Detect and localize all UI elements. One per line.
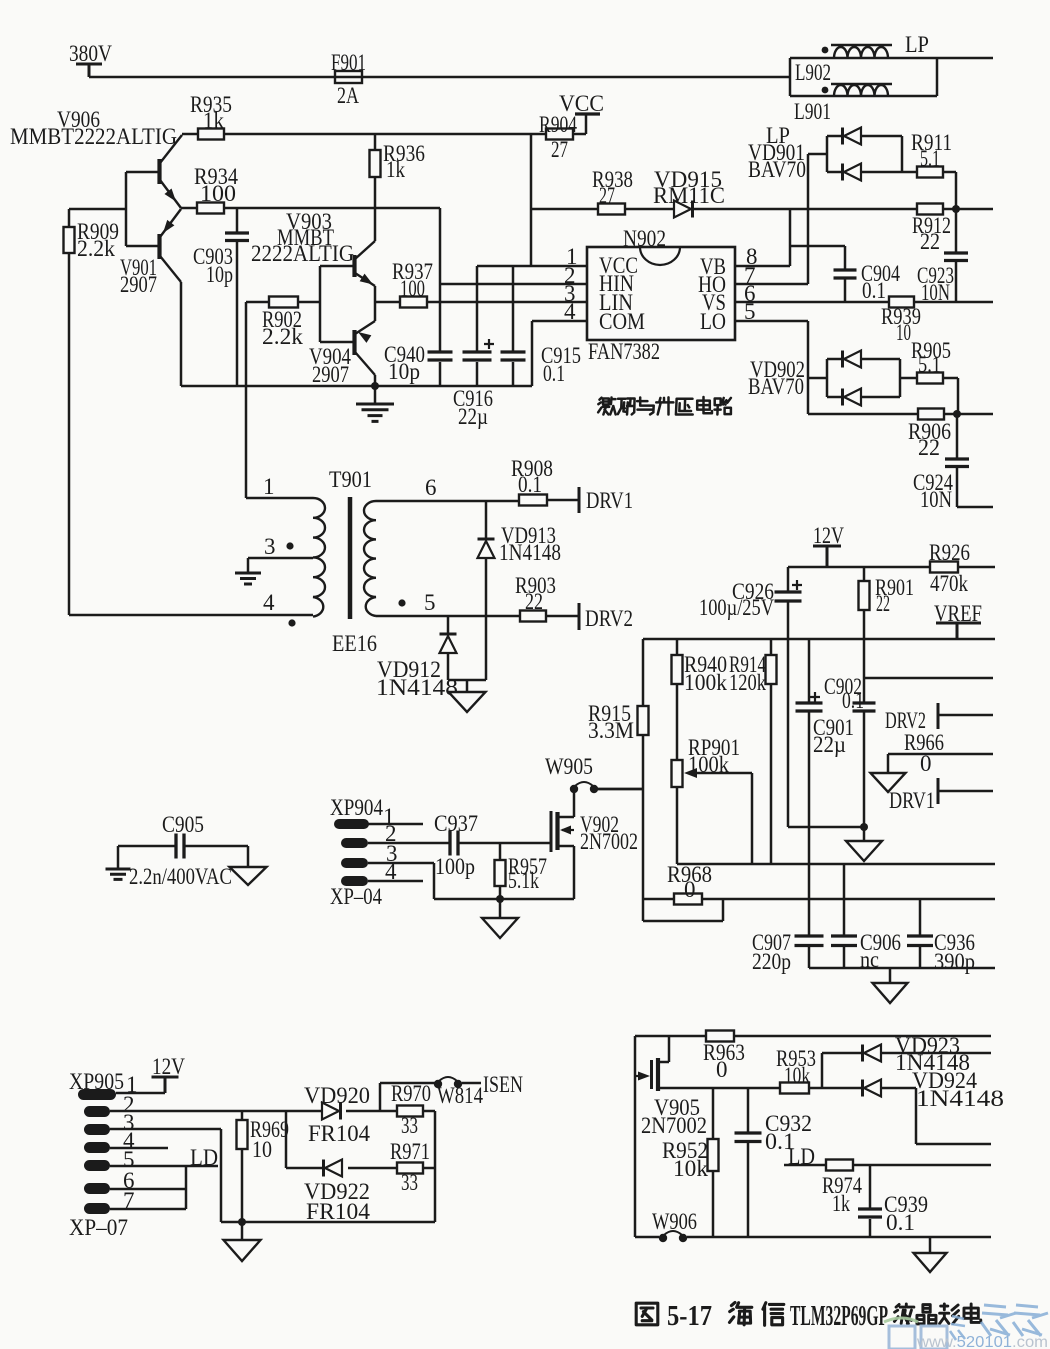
- svg-text:0.1: 0.1: [842, 688, 864, 713]
- svg-text:C905: C905: [162, 812, 204, 837]
- svg-text:27: 27: [599, 183, 615, 208]
- wire C901 leg: [808, 639, 811, 864]
- svg-text:100: 100: [400, 276, 425, 301]
- svg-text:0.1: 0.1: [518, 472, 542, 497]
- text 激励与升压电路 char 6: [715, 398, 731, 415]
- svg-text:12V: 12V: [152, 1054, 185, 1079]
- wire V902 source rail: [434, 898, 574, 901]
- svg-text:4: 4: [263, 590, 275, 615]
- diode VD902 lower: [844, 389, 861, 406]
- svg-text:N902: N902: [623, 226, 666, 251]
- wire R936 leg: [374, 134, 377, 241]
- transistor V902 gate bar: [550, 811, 553, 852]
- polarity plus C926: [792, 580, 802, 590]
- wire T901 pin3 tap: [248, 558, 313, 572]
- svg-text:2907: 2907: [120, 272, 157, 297]
- svg-text:XP–07: XP–07: [69, 1215, 128, 1240]
- resistor R914: [766, 655, 777, 684]
- wire V902 drain: [559, 793, 574, 817]
- svg-text:DRV1: DRV1: [586, 488, 633, 513]
- text 激励与升压电路 char 4: [676, 399, 693, 415]
- resistor R901: [859, 581, 870, 610]
- wire R969 leg: [241, 1111, 244, 1222]
- wire C915 leg: [512, 266, 515, 386]
- svg-text:R971: R971: [390, 1139, 430, 1164]
- ground VD912: [449, 692, 486, 712]
- wire XP904 pin4 stub: [368, 880, 423, 883]
- svg-text:L901: L901: [794, 99, 831, 124]
- svg-text:100k: 100k: [684, 670, 727, 695]
- diode VD915: [674, 201, 691, 218]
- capacitor C932: [735, 1133, 762, 1142]
- wire C907 leg: [808, 864, 811, 968]
- svg-text:22µ: 22µ: [813, 732, 846, 757]
- wire V901 collector drop: [180, 282, 183, 386]
- caption char 液晶彩电-1: [917, 1305, 936, 1324]
- pin XP904-4 pad: [341, 876, 368, 886]
- text 激励与升压电路 char 3: [656, 397, 673, 414]
- svg-text:380V: 380V: [69, 41, 112, 66]
- svg-text:6: 6: [425, 475, 437, 500]
- caption char 液晶彩电-0: [894, 1304, 913, 1323]
- wire VD922 branch: [286, 1111, 396, 1168]
- resistor R953: [780, 1083, 809, 1094]
- svg-text:MMBT2222ALTIG: MMBT2222ALTIG: [10, 124, 177, 149]
- svg-text:22: 22: [525, 589, 543, 614]
- resistor R935: [198, 129, 224, 140]
- wire C936 leg: [919, 899, 922, 968]
- svg-text:2N7002: 2N7002: [580, 829, 638, 854]
- wire R952 leg: [712, 1088, 715, 1237]
- wire C926 leg: [787, 567, 790, 639]
- svg-text:3: 3: [264, 534, 276, 559]
- svg-text:T901: T901: [329, 467, 372, 492]
- wire gnd stub: [374, 386, 377, 403]
- node 380V power entry: [76, 64, 102, 77]
- diode VD920: [322, 1103, 339, 1120]
- pin XP905-1 pad: [78, 1089, 116, 1100]
- power 12V flag XP905: [152, 1077, 179, 1093]
- svg-text:10: 10: [896, 320, 911, 345]
- wire T901 pin6 out: [376, 500, 578, 501]
- svg-text:5: 5: [424, 590, 436, 615]
- capacitor C916: [463, 352, 492, 360]
- ground T901 pin3: [235, 573, 261, 584]
- svg-text:F901: F901: [331, 50, 366, 75]
- svg-text:R970: R970: [391, 1081, 431, 1106]
- svg-text:L902: L902: [795, 60, 831, 85]
- wire C940 leg: [439, 284, 442, 386]
- capacitor C904: [834, 270, 857, 278]
- text 激励与升压电路 char 2: [637, 398, 654, 415]
- caption char 图: [636, 1303, 658, 1325]
- wire XP905 pin1: [116, 1092, 165, 1095]
- resistor R926: [930, 562, 958, 573]
- node T901 dot pin5: [398, 599, 405, 606]
- caption char 液晶彩电-3: [964, 1304, 981, 1322]
- wire C923 leads: [955, 209, 958, 302]
- capacitor C906: [831, 936, 857, 946]
- svg-text:390p: 390p: [934, 949, 975, 974]
- resistor R905: [917, 373, 943, 384]
- svg-text:220p: 220p: [752, 949, 791, 974]
- wire T901 pin4 line: [69, 614, 313, 617]
- transistor V902 channel bar: [555, 812, 559, 850]
- switch W814: [434, 1080, 442, 1088]
- resistor R934: [197, 203, 224, 214]
- caption char 信: [763, 1303, 784, 1326]
- op-amp U1 N902 FAN7382 body: [587, 247, 735, 340]
- pin XP905-5 pad: [84, 1160, 110, 1171]
- wire LD rail y1165: [784, 1164, 991, 1167]
- ground C901/C902: [846, 841, 882, 861]
- wire VD912 leg: [448, 616, 486, 680]
- resistor R974: [826, 1160, 853, 1171]
- wire LIN drive y302: [375, 301, 587, 304]
- svg-text:LO: LO: [700, 309, 726, 334]
- caption char 液晶彩电-2: [940, 1304, 959, 1323]
- svg-text:EE16: EE16: [332, 631, 377, 656]
- wire R901 leg: [863, 567, 866, 639]
- wire pin8 VB link: [735, 209, 790, 266]
- wire C924 leads: [957, 414, 993, 507]
- wire XP904 pin3 down: [368, 863, 434, 899]
- transformer T901 core: [348, 497, 353, 619]
- svg-text:22: 22: [876, 591, 890, 616]
- capacitor C907: [795, 936, 824, 946]
- wire C902 top out: [864, 677, 993, 680]
- wire gnd stub y968: [889, 968, 892, 983]
- power flag VCC: [575, 112, 600, 115]
- wire gnd rail y386: [181, 385, 532, 388]
- wire gnd stub V905: [929, 1237, 932, 1253]
- decor watermark handwriting strokes: [950, 1305, 1048, 1340]
- pin XP904-3 pad: [341, 858, 368, 868]
- resistor R938: [598, 204, 625, 215]
- switch W905: [570, 785, 578, 793]
- wire XP905 gnd rail: [221, 1221, 435, 1224]
- svg-text:1N4148: 1N4148: [916, 1086, 1004, 1111]
- capacitor C926: [775, 592, 802, 601]
- svg-text:5-17: 5-17: [667, 1301, 712, 1332]
- svg-text:LP: LP: [905, 32, 929, 57]
- ground C905 right: [230, 867, 267, 885]
- wire bottom rail y968: [809, 967, 995, 970]
- wire R966 link: [888, 754, 993, 773]
- wire VCC pin1 feed: [477, 265, 587, 268]
- pin XP904-1 pad: [334, 819, 369, 829]
- ground C905: [106, 869, 131, 879]
- inductor L902: [831, 45, 892, 58]
- node VB junction: [952, 205, 960, 213]
- wire VD923 branch: [822, 1053, 991, 1088]
- svg-text:5.1: 5.1: [920, 146, 940, 171]
- resistor R969: [237, 1120, 248, 1149]
- wire V905 drain: [659, 1036, 669, 1062]
- wire 380V rail: [89, 76, 790, 79]
- diode VD913: [478, 541, 495, 558]
- svg-text:2A: 2A: [337, 83, 359, 108]
- transistor V905 gate bar: [650, 1060, 653, 1089]
- svg-text:2.2k: 2.2k: [77, 236, 115, 261]
- wire XP904 pin2 to C937: [368, 842, 450, 845]
- node T901 dot pin3: [286, 542, 293, 549]
- transistor V905 channel bar: [656, 1058, 660, 1091]
- svg-text:0: 0: [716, 1057, 728, 1082]
- wire ISEN stub: [462, 1082, 481, 1085]
- svg-text:LD: LD: [190, 1145, 218, 1170]
- diode VD912: [440, 636, 457, 653]
- transistor V902 arrow stub: [562, 829, 574, 831]
- svg-text:2.2k: 2.2k: [262, 324, 304, 349]
- wire R902 to T901 pin1: [246, 302, 313, 498]
- wire RP901 wiper: [694, 773, 752, 864]
- svg-text:5.1: 5.1: [918, 352, 941, 377]
- wire R915 column: [598, 639, 643, 893]
- wire V902 source: [559, 846, 574, 899]
- wire V905 source rail y1088: [659, 1087, 916, 1090]
- resistor R902: [269, 297, 298, 308]
- pin V901 emitter arrow: [163, 220, 174, 233]
- svg-text:0.1: 0.1: [543, 361, 565, 386]
- svg-text:R904: R904: [539, 112, 577, 137]
- svg-text:0.1: 0.1: [862, 278, 886, 303]
- svg-text:10N: 10N: [920, 487, 952, 512]
- wire VD901 box: [827, 136, 917, 172]
- transistor V901: [157, 234, 161, 259]
- wire R905 to VS2 node: [943, 378, 958, 414]
- svg-text:3.3M: 3.3M: [588, 718, 634, 743]
- svg-text:10k: 10k: [673, 1156, 709, 1181]
- ground XP905: [224, 1240, 261, 1261]
- svg-text:100: 100: [200, 181, 236, 206]
- node R969 gnd junction: [238, 1218, 246, 1226]
- wire C904 bottom lead: [844, 278, 847, 302]
- resistor R971: [397, 1163, 423, 1174]
- transistor V906: [157, 159, 161, 184]
- power 12V flag: [813, 546, 841, 567]
- svg-text:W814: W814: [437, 1083, 483, 1108]
- svg-text:FR104: FR104: [308, 1121, 370, 1146]
- fuse F901: [335, 71, 362, 83]
- svg-text:10: 10: [252, 1137, 272, 1162]
- resistor R912: [917, 204, 943, 215]
- wire filter box L902/L901: [790, 58, 937, 96]
- resistor R939: [889, 297, 914, 308]
- wire R906 rail y414: [808, 413, 993, 416]
- wire VD924 out: [916, 1088, 991, 1144]
- svg-text:10k: 10k: [784, 1063, 810, 1088]
- polarity plus C901: [810, 692, 820, 702]
- terminal DRV1 right: [937, 778, 940, 804]
- svg-text:12V: 12V: [813, 523, 844, 548]
- ground V902 source: [482, 918, 518, 938]
- wire base node to R909: [69, 208, 126, 211]
- svg-text:5.1k: 5.1k: [508, 868, 539, 893]
- wire VCC rail y134: [182, 114, 586, 134]
- wire R940 column: [676, 639, 679, 864]
- capacitor C903: [225, 233, 249, 241]
- svg-text:2222ALTIG: 2222ALTIG: [251, 241, 354, 266]
- svg-text:120k: 120k: [729, 670, 766, 695]
- svg-text:10p: 10p: [388, 359, 420, 384]
- wire C939 leg: [869, 1165, 872, 1237]
- wire V905 left column: [634, 1036, 637, 1237]
- capacitor C923: [944, 253, 968, 261]
- svg-text:COM: COM: [599, 309, 645, 334]
- resistor R957: [495, 860, 506, 886]
- svg-text:1k: 1k: [386, 157, 405, 182]
- capacitor C902: [853, 703, 876, 711]
- wire pin7 HO: [735, 283, 808, 286]
- diode VD901 upper: [844, 128, 861, 145]
- transistor V903: [352, 255, 356, 277]
- transistor V905 gate stub: [635, 1075, 640, 1077]
- wire R970 right leg: [423, 1111, 435, 1222]
- svg-text:XP–04: XP–04: [330, 884, 382, 909]
- pin V905 arrow: [638, 1072, 650, 1081]
- node analog gnd junction: [860, 823, 868, 831]
- node R957 gnd junction: [496, 895, 504, 903]
- node L901 polarity dot: [822, 87, 829, 94]
- diode VD901 lower: [844, 164, 861, 181]
- ground bottom rail: [873, 983, 908, 1003]
- wire gnd stub XP905: [241, 1222, 244, 1240]
- text 激励与升压电路 char 1: [618, 398, 635, 414]
- wire R902 link: [246, 301, 320, 304]
- svg-text:2.2n/400VAC: 2.2n/400VAC: [129, 864, 232, 889]
- wire XP905 pin6: [110, 1188, 186, 1191]
- wire V903 base rail: [320, 266, 353, 342]
- pin XP905-3 pad: [84, 1124, 110, 1135]
- diode VD923: [864, 1045, 881, 1062]
- pin XP904-2 pad: [341, 838, 368, 848]
- wire XP905 pin2 rail: [110, 1110, 397, 1113]
- resistor R904: [546, 129, 573, 140]
- resistor R940: [672, 655, 683, 684]
- wire R909 leg: [68, 209, 71, 615]
- svg-text:1N4148: 1N4148: [376, 675, 458, 700]
- wire LP output: [937, 57, 993, 60]
- wire R963 rail y1036: [635, 1035, 991, 1038]
- wire C902 leg: [863, 639, 866, 826]
- capacitor C901: [796, 703, 823, 711]
- wire XP905 pin7: [110, 1208, 186, 1211]
- svg-text:2N7002: 2N7002: [641, 1113, 707, 1138]
- wire W905 to R915 node: [598, 788, 643, 791]
- wire DRV1 stub: [939, 790, 993, 793]
- svg-text:DRV1: DRV1: [889, 788, 935, 813]
- pin XP905-2 pad: [84, 1106, 110, 1117]
- wire R911 to VB node: [943, 172, 956, 209]
- node V904 emitter junction: [371, 382, 379, 390]
- switch W906: [659, 1234, 667, 1242]
- resistor R970: [397, 1106, 423, 1117]
- wire control rail y639: [643, 638, 995, 641]
- wire C916 leg: [476, 266, 479, 386]
- pin XP905-7 pad: [84, 1203, 110, 1214]
- wire R957 leg: [499, 843, 502, 899]
- svg-text:DRV2: DRV2: [585, 606, 633, 631]
- svg-text:RM11C: RM11C: [653, 183, 725, 208]
- capacitor C924: [945, 459, 969, 467]
- wire C905 right: [184, 846, 248, 867]
- wire XP905 pin4 stub: [110, 1147, 168, 1150]
- pin XP905-4 pad: [84, 1142, 110, 1153]
- terminal DRV1: [578, 487, 581, 513]
- power flag VREF: [936, 623, 981, 639]
- wire gnd tie y827: [788, 826, 864, 829]
- inductor L901: [831, 84, 892, 96]
- wire HIN drive corner: [440, 208, 587, 284]
- resistor R952: [708, 1139, 719, 1171]
- caption char 海: [729, 1302, 751, 1324]
- wire V905 gnd rail: [635, 1236, 991, 1239]
- wire W814 branch: [380, 1083, 436, 1111]
- ground main rail: [356, 404, 394, 421]
- svg-text:BAV70: BAV70: [748, 374, 804, 399]
- wire C932 leg: [747, 1088, 750, 1237]
- terminal DRV2 right: [937, 703, 940, 729]
- wire pin4 COM: [532, 320, 587, 323]
- wire R938 VD915 rail y209: [531, 208, 956, 211]
- wire C905 left: [118, 846, 176, 868]
- svg-text:ISEN: ISEN: [483, 1072, 523, 1097]
- svg-text:1N4148: 1N4148: [499, 540, 561, 565]
- svg-text:0.1: 0.1: [886, 1210, 915, 1235]
- wire C903 leg: [236, 208, 239, 386]
- svg-text:1k: 1k: [832, 1191, 850, 1216]
- wire pin5 LO link: [735, 321, 827, 414]
- wire VD902 box: [827, 359, 917, 397]
- wire VCC drop to R938: [530, 134, 533, 266]
- wire COM return: [531, 321, 534, 386]
- svg-text:22µ: 22µ: [458, 404, 488, 429]
- wire emitter node y208: [181, 207, 440, 210]
- wire C926 lower leg: [787, 639, 790, 827]
- wire pin6 VS rail: [735, 301, 993, 304]
- svg-text:2907: 2907: [312, 362, 349, 387]
- svg-text:27: 27: [551, 137, 568, 162]
- resistor R915: [638, 706, 649, 735]
- ground V905 rail: [914, 1253, 947, 1272]
- pin V904 emitter arrow: [358, 332, 371, 343]
- pin V903 emitter arrow: [360, 274, 373, 285]
- transformer T901 secondary winding: [364, 501, 376, 616]
- pin RP901 wiper arrow: [684, 768, 697, 778]
- capacitor C939: [858, 1209, 882, 1217]
- diode VD924: [864, 1080, 881, 1097]
- text 激励与升压电路 char 5: [697, 397, 712, 413]
- potentiometer RP901: [672, 760, 683, 787]
- resistor R936: [370, 150, 381, 177]
- wire VB out: [956, 208, 993, 211]
- wire R971 right leg: [423, 1167, 435, 1170]
- wire T901 pin5 out: [376, 615, 578, 618]
- resistor R963: [706, 1031, 734, 1042]
- wire XP904 pin1 stub: [368, 823, 423, 826]
- resistor R903: [520, 611, 546, 622]
- svg-text:0: 0: [684, 877, 696, 902]
- capacitor C936: [907, 936, 933, 946]
- wire gnd stub C902: [863, 827, 866, 841]
- wire C937 to V902 gate: [458, 842, 550, 845]
- capacitor C915: [501, 352, 526, 360]
- svg-text:W906: W906: [652, 1209, 697, 1234]
- svg-text:100p: 100p: [435, 854, 475, 879]
- diode VD922: [325, 1160, 342, 1177]
- svg-text:100µ/25V: 100µ/25V: [699, 595, 774, 620]
